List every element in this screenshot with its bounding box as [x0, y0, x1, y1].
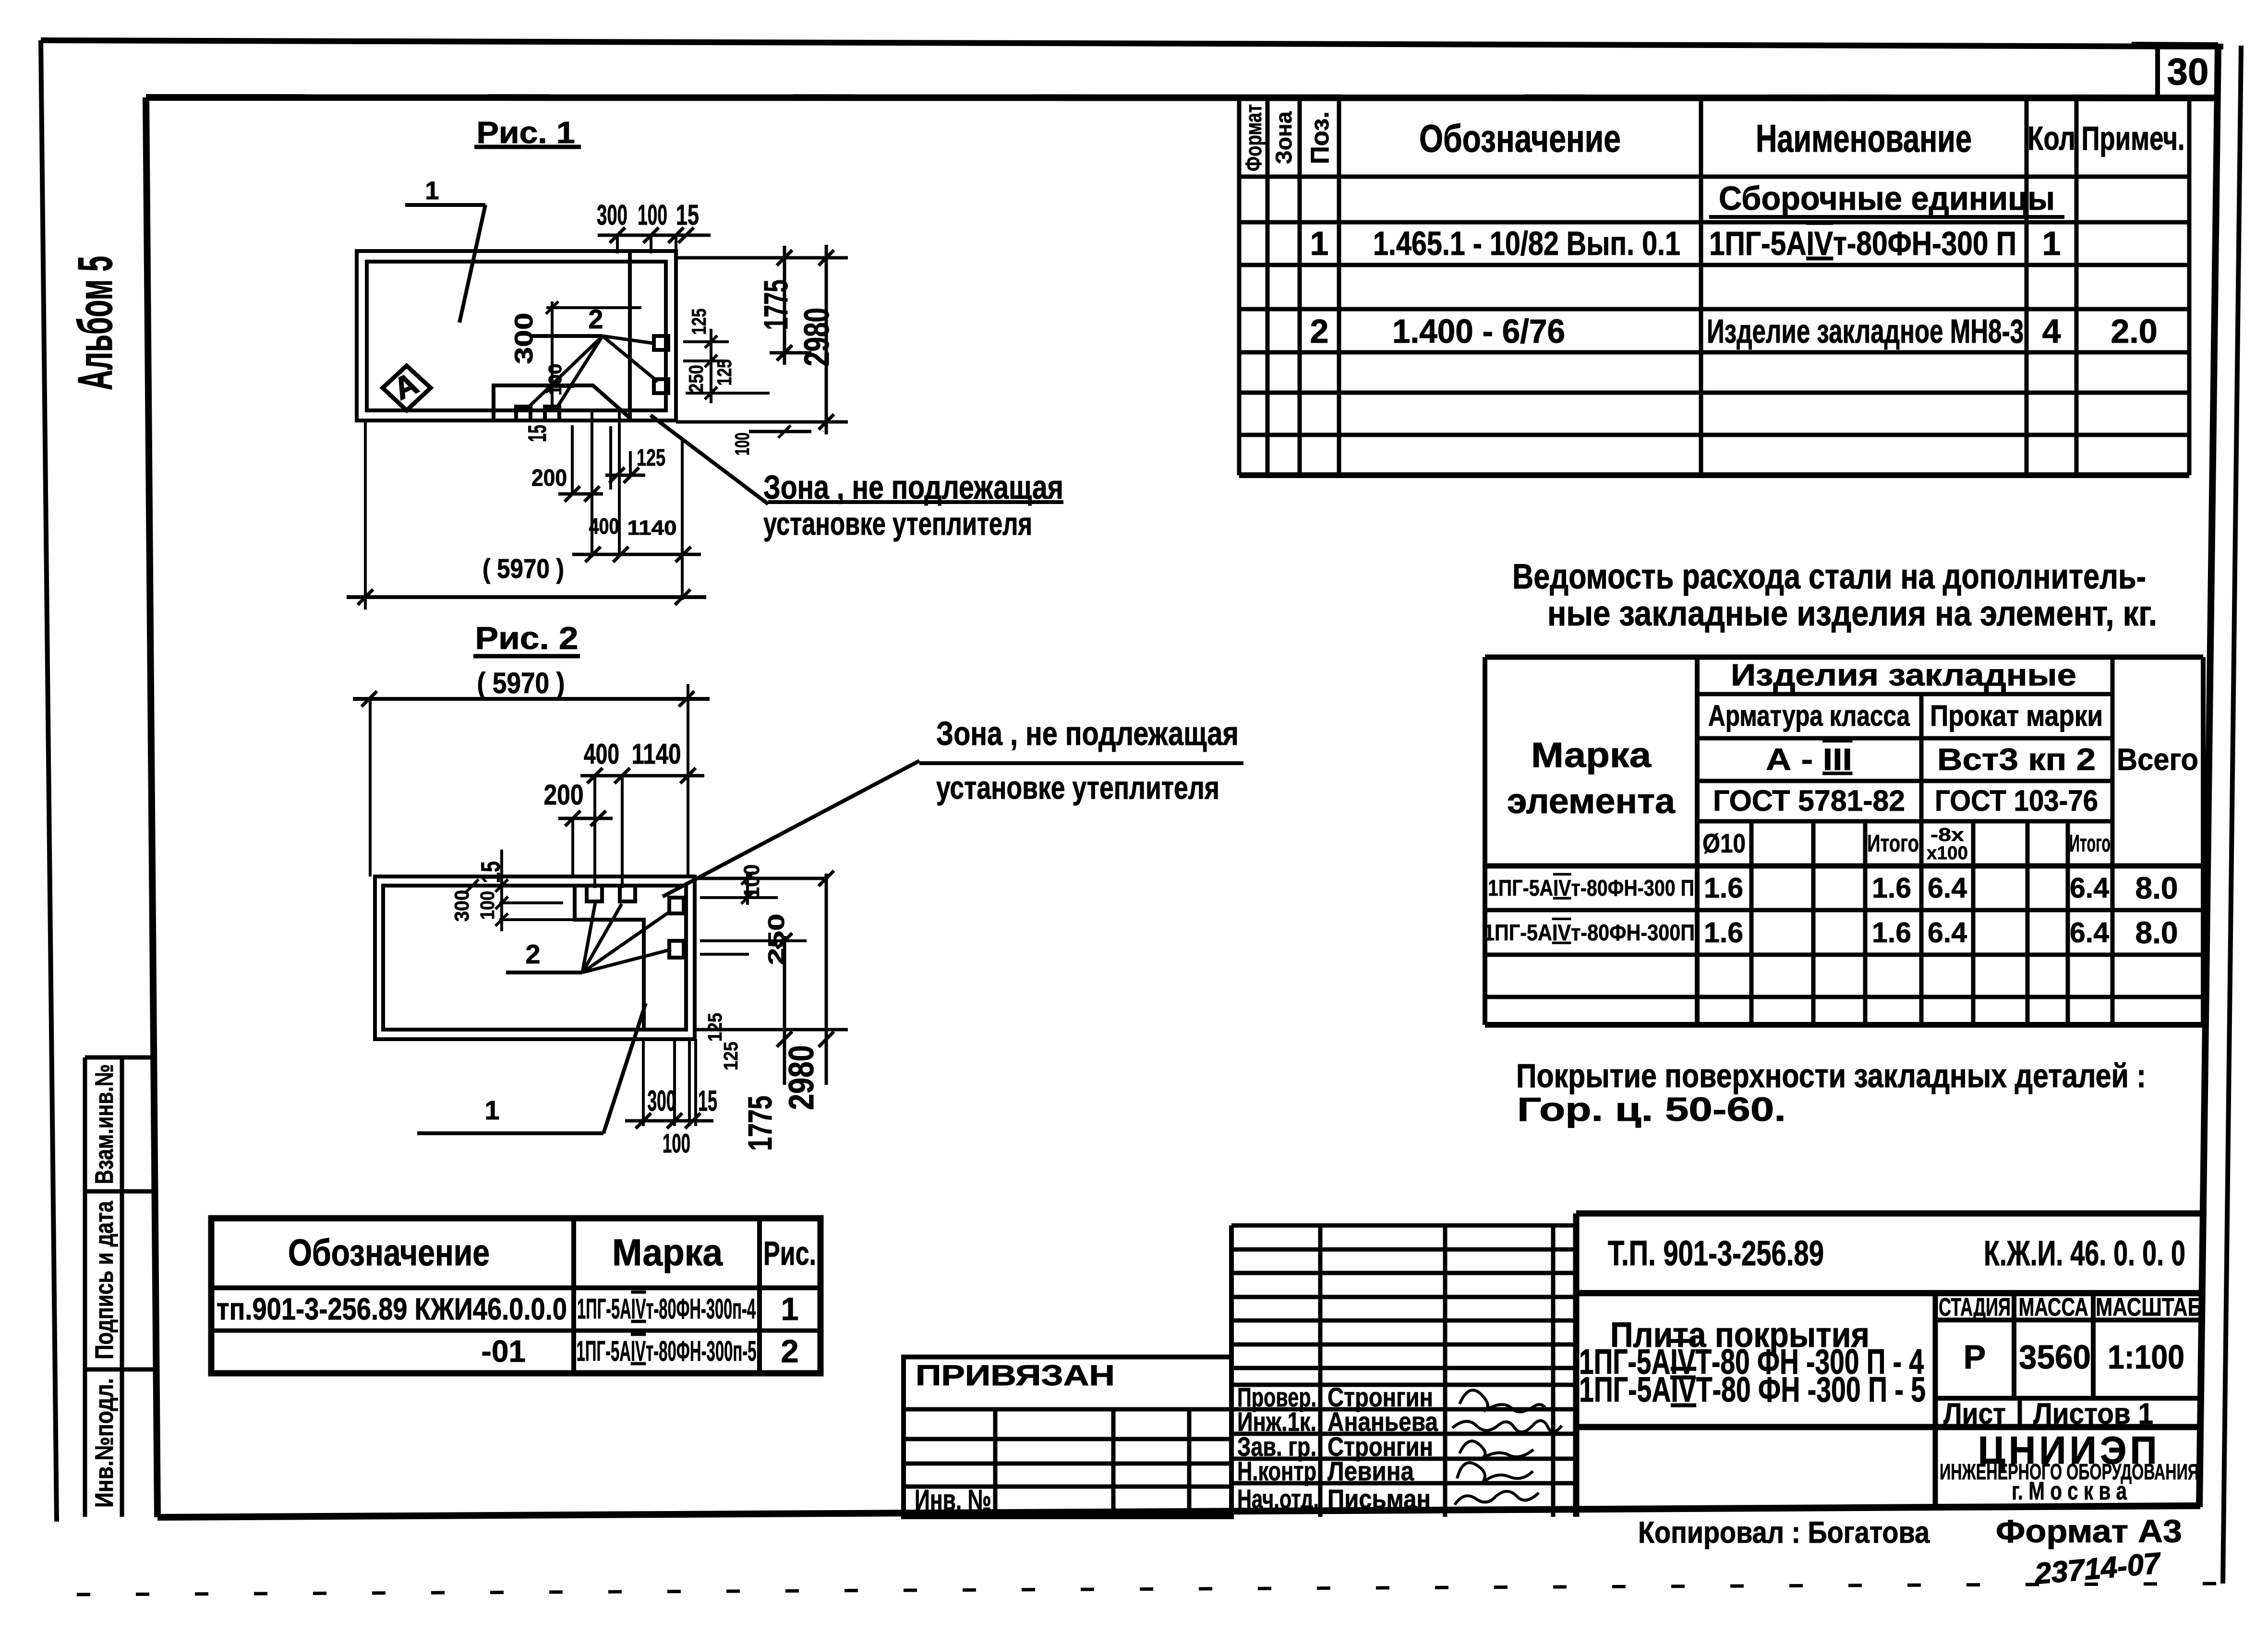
- svg-text:Арматура класса: Арматура класса: [1708, 699, 1910, 732]
- fig1 leader 1: [405, 177, 485, 323]
- svg-text:250: 250: [685, 365, 707, 393]
- fig2 right dims: [695, 864, 848, 1071]
- svg-text:Изделия закладные: Изделия закладные: [1731, 658, 2076, 692]
- svg-text:Обозначение: Обозначение: [1419, 117, 1621, 160]
- svg-text:Кол: Кол: [2027, 120, 2075, 157]
- svg-text:1: 1: [425, 177, 439, 205]
- svg-text:1ПГ-5АIVт-80ФН-300П: 1ПГ-5АIVт-80ФН-300П: [1484, 920, 1695, 945]
- svg-text:2: 2: [1310, 312, 1329, 350]
- svg-text:ГОСТ 103-76: ГОСТ 103-76: [1935, 784, 2098, 817]
- svg-text:МАСШТАБ: МАСШТАБ: [2096, 1293, 2202, 1321]
- svg-text:х100: х100: [1927, 843, 1968, 864]
- fig2 zone boundary: [575, 886, 644, 1030]
- fig1 right extension lines: [676, 258, 848, 432]
- fig1 dim 2980: [797, 245, 836, 434]
- svg-text:Копировал : Богатова: Копировал : Богатова: [1638, 1516, 1930, 1549]
- svg-text:1ПГ-5АIVт-80ФН-300 П: 1ПГ-5АIVт-80ФН-300 П: [1709, 225, 2016, 262]
- sheet outer border left: [41, 40, 57, 1522]
- svg-text:1775: 1775: [757, 280, 795, 330]
- svg-text:30: 30: [2167, 50, 2209, 93]
- svg-text:1.465.1 - 10/82 Вып. 0.1: 1.465.1 - 10/82 Вып. 0.1: [1373, 225, 1680, 262]
- svg-text:1: 1: [2042, 225, 2061, 262]
- svg-text:Зона , не подлежащая: Зона , не подлежащая: [936, 715, 1239, 752]
- svg-text:Ø10: Ø10: [1702, 828, 1746, 858]
- svg-text:1140: 1140: [627, 516, 677, 540]
- fig2 leader 2 with fan: [506, 902, 671, 972]
- svg-text:ГОСТ 5781-82: ГОСТ 5781-82: [1713, 784, 1905, 817]
- svg-text:Вст3 кп 2: Вст3 кп 2: [1937, 742, 2096, 777]
- sheet outer border top: [41, 40, 2223, 47]
- svg-text:1ПГ-5АIVт-80ФН-300п-5: 1ПГ-5АIVт-80ФН-300п-5: [577, 1335, 757, 1367]
- title block frame: [1576, 1213, 2207, 1517]
- svg-text:Итого: Итого: [1867, 830, 1919, 857]
- main frame bottom: [157, 1506, 2200, 1517]
- svg-text:6.4: 6.4: [2070, 872, 2109, 904]
- svg-text:Инв. №: Инв. №: [915, 1484, 991, 1516]
- svg-text:Нач.отд.: Нач.отд.: [1237, 1484, 1319, 1514]
- svg-text:23714-07: 23714-07: [2033, 1547, 2163, 1591]
- svg-text:100: 100: [663, 1128, 690, 1158]
- svg-text:8.0: 8.0: [2135, 915, 2178, 950]
- fig1 plate outline: [357, 251, 676, 420]
- svg-text:-8х: -8х: [1930, 825, 1964, 845]
- svg-text:15: 15: [698, 1085, 717, 1117]
- sheet outer border right: [2223, 46, 2241, 1584]
- spec table grid: [1239, 98, 2189, 475]
- svg-text:Формат А3: Формат А3: [1996, 1513, 2182, 1549]
- svg-text:100: 100: [476, 891, 498, 920]
- svg-text:Наименование: Наименование: [1756, 117, 1972, 160]
- svg-text:Всего: Всего: [2117, 742, 2198, 777]
- fig2 leader 1: [417, 1003, 646, 1133]
- svg-text:Марка: Марка: [1531, 736, 1652, 775]
- fig1 left dims 300 100: [510, 301, 641, 408]
- fig2 left dims 15 100 300: [450, 850, 644, 931]
- svg-text:Примеч.: Примеч.: [2082, 120, 2185, 157]
- svg-text:100: 100: [731, 432, 753, 456]
- svg-text:300: 300: [510, 313, 538, 364]
- fig1 embedded parts right: [654, 336, 668, 350]
- svg-text:1.6: 1.6: [1704, 917, 1743, 948]
- svg-text:1: 1: [1310, 225, 1329, 262]
- fig1 embedded parts bottom: [516, 407, 531, 420]
- svg-text:1: 1: [781, 1291, 798, 1327]
- svg-text:3560: 3560: [2019, 1338, 2091, 1376]
- svg-text:100: 100: [638, 199, 667, 231]
- svg-text:15: 15: [676, 199, 699, 231]
- svg-text:1140: 1140: [632, 738, 681, 770]
- svg-text:125: 125: [720, 1042, 742, 1070]
- svg-text:1.6: 1.6: [1872, 917, 1911, 948]
- svg-text:125: 125: [713, 360, 736, 386]
- left stamp column grid: [83, 1057, 87, 1517]
- svg-text:МАССА: МАССА: [2019, 1293, 2088, 1321]
- svg-text:Левина: Левина: [1327, 1456, 1414, 1486]
- svg-text:2: 2: [525, 939, 540, 969]
- svg-text:125: 125: [704, 1013, 726, 1042]
- signature table grid: [1231, 1225, 1576, 1517]
- svg-text:Формат: Формат: [1241, 104, 1266, 171]
- privyazan box: [904, 1357, 1231, 1517]
- svg-text:2980: 2980: [797, 308, 836, 366]
- page number box 30: [2155, 47, 2160, 98]
- svg-text:Н.контр: Н.контр: [1237, 1456, 1316, 1486]
- svg-text:Рис. 2: Рис. 2: [475, 620, 579, 656]
- svg-text:Альбом 5: Альбом 5: [69, 256, 122, 390]
- fig1 zone boundary: [494, 251, 630, 420]
- fig2 plate outline: [375, 876, 695, 1039]
- svg-text:Обозначение: Обозначение: [288, 1231, 490, 1273]
- svg-text:Зона , не подлежащая: Зона , не подлежащая: [763, 468, 1063, 506]
- fig2 embedded parts right: [669, 898, 684, 913]
- svg-text:Покрытие поверхности закладн: Покрытие поверхности закладных деталей :: [1516, 1057, 2146, 1094]
- svg-text:Ведомость расхода стали на: Ведомость расхода стали на дополнитель-: [1512, 557, 2146, 596]
- fig1 dims 125 125 250 100: [685, 309, 791, 456]
- svg-text:300: 300: [597, 199, 627, 231]
- svg-text:1ПГ-5АIVт-80ФН-300 П: 1ПГ-5АIVт-80ФН-300 П: [1488, 875, 1694, 900]
- fig2 dim 2980: [782, 871, 834, 1110]
- svg-text:4: 4: [2042, 312, 2061, 350]
- svg-text:Рис.: Рис.: [763, 1235, 816, 1272]
- fig2 embedded parts top: [587, 886, 602, 901]
- fig1 bottom dims: [523, 411, 701, 600]
- svg-text:8.0: 8.0: [2135, 871, 2178, 905]
- svg-text:К.Ж.И. 46. 0. 0. 0: К.Ж.И. 46. 0. 0. 0: [1984, 1234, 2185, 1273]
- svg-text:Лист: Лист: [1943, 1397, 2006, 1430]
- svg-text:Инв.№подл.: Инв.№подл.: [90, 1378, 119, 1508]
- svg-text:А - III: А - III: [1766, 742, 1852, 777]
- svg-text:Т.П. 901-3-256.89: Т.П. 901-3-256.89: [1608, 1234, 1824, 1273]
- svg-text:125: 125: [637, 445, 665, 471]
- svg-text:6.4: 6.4: [2070, 917, 2109, 948]
- svg-text:Р: Р: [1964, 1338, 1986, 1376]
- signatures handwriting: [1452, 1390, 1562, 1505]
- handwritten inventory number: [2033, 1547, 2163, 1591]
- svg-text:6.4: 6.4: [1928, 917, 1967, 948]
- fig2 zona note: [663, 715, 1243, 897]
- svg-text:300: 300: [648, 1085, 676, 1117]
- svg-text:Гор. ц. 50-60.: Гор. ц. 50-60.: [1517, 1091, 1786, 1128]
- svg-text:1.6: 1.6: [1872, 872, 1911, 904]
- svg-text:г. М о с к в а: г. М о с к в а: [2012, 1477, 2127, 1505]
- svg-text:Подпись и дата: Подпись и дата: [90, 1201, 119, 1359]
- fig1 marker A diamond: [383, 366, 431, 410]
- fig2 top dims 400 1140 200: [544, 738, 705, 888]
- ref table grid: [211, 1218, 820, 1373]
- svg-text:установке утеплителя: установке утеплителя: [763, 506, 1032, 542]
- svg-text:Итого: Итого: [2069, 830, 2111, 857]
- svg-text:2980: 2980: [782, 1045, 821, 1110]
- svg-text:Листов 1: Листов 1: [2033, 1397, 2153, 1430]
- fig2 dim 1775: [741, 933, 792, 1151]
- svg-text:1ПГ-5АIVт-80ФН-300п-4: 1ПГ-5АIVт-80ФН-300п-4: [577, 1293, 756, 1325]
- vedomost table grid: [1485, 657, 2203, 1025]
- fig2 bottom dims 300 15 100: [625, 1039, 717, 1158]
- svg-text:300: 300: [450, 890, 473, 922]
- fig1 overall dim 5970: [347, 422, 706, 610]
- svg-text:1ПГ-5АIVТ-80 ФН -300 П - 5: 1ПГ-5АIVТ-80 ФН -300 П - 5: [1579, 1370, 1926, 1409]
- main frame top: [146, 97, 2218, 98]
- svg-text:400: 400: [589, 514, 619, 539]
- fig1 top dimension 300 100 15: [597, 199, 711, 253]
- svg-text:( 5970 ): ( 5970 ): [483, 553, 564, 584]
- svg-text:( 5970 ): ( 5970 ): [477, 667, 565, 699]
- fig1 leader 2 with fan: [528, 304, 658, 408]
- fig1 dim 1775: [757, 246, 795, 365]
- svg-text:Письман: Письман: [1327, 1484, 1431, 1514]
- svg-text:Изделие закладное МН8-3: Изделие закладное МН8-3: [1707, 312, 2024, 350]
- svg-text:Поз.: Поз.: [1306, 111, 1334, 164]
- svg-text:Взам.инв.№: Взам.инв.№: [90, 1064, 119, 1184]
- svg-text:15: 15: [523, 425, 552, 442]
- svg-text:125: 125: [688, 309, 710, 335]
- svg-text:400: 400: [584, 738, 619, 770]
- svg-text:6.4: 6.4: [1928, 872, 1967, 904]
- main frame left: [146, 97, 157, 1517]
- svg-text:Марка: Марка: [612, 1231, 723, 1273]
- svg-text:элемента: элемента: [1507, 782, 1676, 821]
- svg-text:1:100: 1:100: [2108, 1338, 2184, 1376]
- svg-text:1.6: 1.6: [1704, 872, 1743, 904]
- svg-text:200: 200: [544, 779, 584, 811]
- fig1 zona note: [651, 415, 1063, 542]
- svg-text:2: 2: [781, 1333, 798, 1369]
- svg-text:ные закладные изделия на э: ные закладные изделия на элемент, кг.: [1547, 594, 2157, 633]
- svg-text:100: 100: [545, 364, 566, 396]
- svg-text:-01: -01: [482, 1334, 526, 1368]
- svg-text:СТАДИЯ: СТАДИЯ: [1939, 1293, 2011, 1321]
- svg-text:1.400 - 6/76: 1.400 - 6/76: [1392, 312, 1565, 350]
- svg-text:2.0: 2.0: [2111, 312, 2157, 350]
- svg-text:Рис. 1: Рис. 1: [477, 115, 575, 150]
- svg-text:1775: 1775: [741, 1096, 779, 1151]
- svg-text:установке утеплителя: установке утеплителя: [936, 770, 1219, 806]
- svg-text:Зона: Зона: [1271, 111, 1296, 164]
- svg-text:тп.901-3-256.89 КЖИ46.0.0.0: тп.901-3-256.89 КЖИ46.0.0.0: [217, 1292, 567, 1326]
- fig2 overall dim 5970: [353, 667, 710, 876]
- svg-text:Сборочные единицы: Сборочные единицы: [1719, 180, 2055, 217]
- sheet outer border bottom (dashed): [77, 1584, 2223, 1595]
- svg-text:ПРИВЯЗАН: ПРИВЯЗАН: [916, 1359, 1115, 1392]
- svg-text:200: 200: [531, 465, 567, 491]
- svg-text:Прокат марки: Прокат марки: [1930, 699, 2103, 732]
- svg-text:1: 1: [484, 1095, 499, 1125]
- main frame right: [2199, 47, 2218, 1507]
